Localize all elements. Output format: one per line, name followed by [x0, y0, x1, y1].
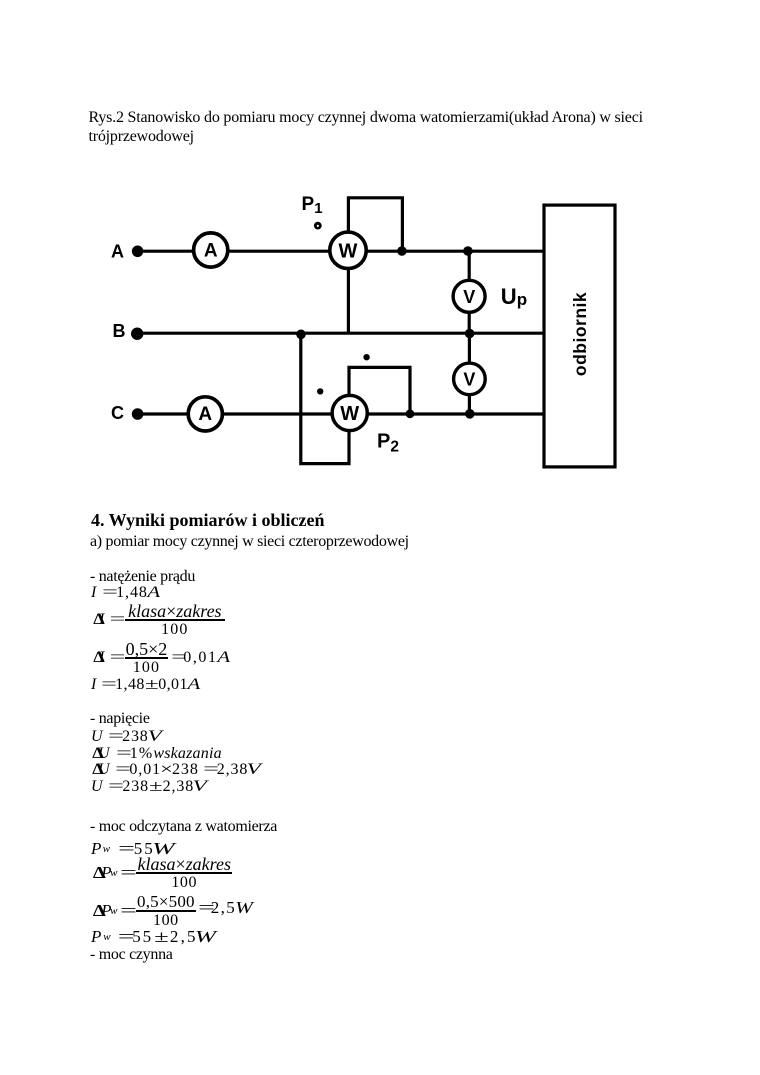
- svg-text:P1: P1: [302, 194, 323, 217]
- svg-text:W: W: [340, 403, 359, 425]
- voltmeter V2: [454, 363, 486, 395]
- ammeter A1: [194, 233, 228, 267]
- node on phase A at P1 bracket: [397, 246, 407, 256]
- node on phase B at W2 branch junction: [296, 330, 306, 340]
- voltmeter V1: [453, 280, 485, 312]
- section moc odczytana: [90, 818, 277, 836]
- polarity dot of W1: [314, 222, 322, 230]
- svg-text:A: A: [204, 240, 218, 261]
- node on phase C at V2 branch: [465, 409, 475, 419]
- svg-text:A: A: [111, 241, 124, 261]
- terminal dot C: [132, 408, 144, 420]
- svg-text:C: C: [111, 403, 124, 423]
- svg-text:Up: Up: [501, 284, 527, 309]
- section natezenie pradu: [90, 568, 195, 586]
- svg-text:odbiornik: odbiornik: [570, 292, 590, 376]
- svg-text:V: V: [463, 370, 475, 390]
- node on phase A at V1 branch: [463, 246, 473, 256]
- svg-text:P2: P2: [377, 430, 399, 455]
- section moc czynna: [90, 946, 173, 964]
- wire V1 branch: [468, 251, 471, 280]
- node on phase C at P2 bracket: [406, 409, 415, 418]
- wire V2 to phase C: [468, 395, 471, 415]
- wire phase B to V2: [468, 334, 471, 364]
- formula dI = klasa x zakres / 100: [93, 603, 226, 637]
- terminal dot A: [132, 246, 144, 258]
- node on phase B at V branch: [465, 329, 475, 339]
- subheading a): [90, 533, 409, 551]
- svg-text:W: W: [339, 241, 358, 263]
- load box odbiornik: [544, 205, 615, 467]
- formula U = 238 +- 2,38V: [91, 778, 207, 796]
- wire V1 to phase B: [468, 313, 471, 334]
- wire W1 bottom stub to phase B: [347, 267, 350, 334]
- formula Pw=55W: [91, 839, 174, 859]
- wire W1 voltage branch (top bracket P1): [348, 198, 402, 249]
- polarity dot of W2 upper: [363, 354, 369, 360]
- svg-text:A: A: [198, 404, 212, 425]
- svg-text:V: V: [463, 287, 475, 307]
- wattmeter W1: [330, 232, 366, 268]
- formula dI = 0,5x2/100 = 0,01A: [93, 641, 231, 675]
- heading 4: [91, 510, 325, 531]
- wire B junction down to W2 bottom (bottom bracket): [301, 334, 349, 464]
- section napiecie: [90, 710, 150, 728]
- formula U=238V: [91, 728, 161, 746]
- ammeter A2: [188, 397, 222, 431]
- wattmeter W2: [332, 395, 367, 430]
- caption Rys.2: [89, 108, 643, 146]
- wire phase C: [143, 412, 544, 415]
- formula dU = 0,01x238 = 2,38V: [92, 761, 262, 779]
- formula I = 1,48 +- 0,01A: [91, 676, 200, 694]
- formula dPw = 0,5x500/100 = 2,5W: [93, 894, 253, 928]
- wire phase B: [143, 332, 544, 335]
- svg-text:B: B: [113, 321, 126, 341]
- terminal dot B: [131, 328, 143, 340]
- formula dU = 1% wskazania: [92, 745, 222, 763]
- wire phase A: [143, 250, 544, 253]
- formula Pw = 55 +- 2,5W: [91, 927, 217, 947]
- formula dPw = klasa x zakres / 100: [93, 856, 232, 890]
- formula I=1,48A: [91, 584, 160, 602]
- wire W2 voltage branch (top bracket P2): [349, 367, 410, 413]
- polarity dot of W2 left: [317, 388, 323, 394]
